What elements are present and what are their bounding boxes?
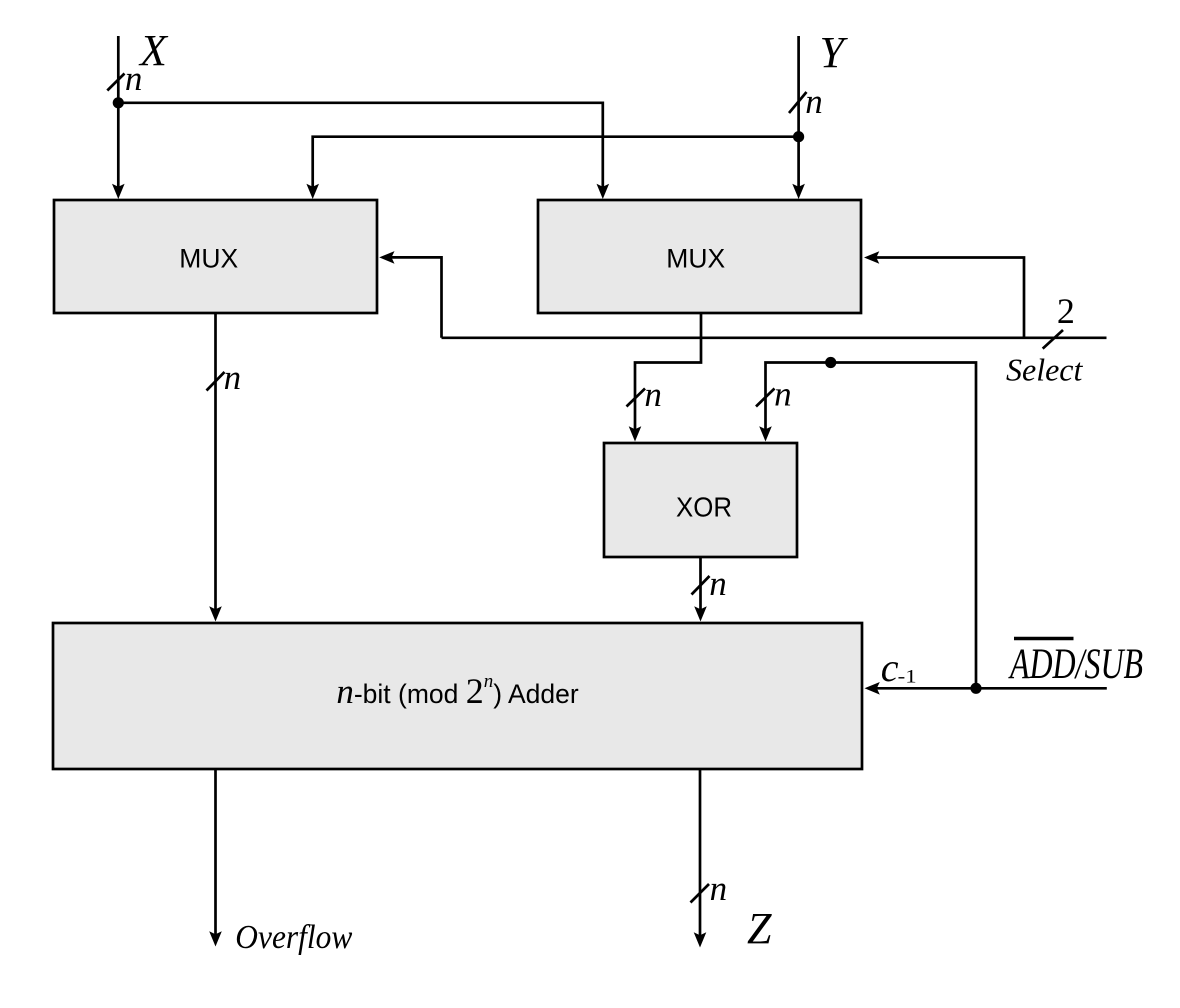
bus slash Y — [789, 92, 807, 113]
bus slash XOR right input — [756, 389, 775, 407]
wire select to right MUX — [871, 258, 1024, 338]
arrowhead c-1 into adder — [865, 682, 880, 695]
arrowhead X branch into right MUX — [597, 184, 610, 199]
junction dot ADD/SUB bottom — [970, 683, 981, 694]
svg-text:n: n — [710, 869, 728, 908]
svg-text:ADD/SUB: ADD/SUB — [1008, 641, 1143, 688]
overline on ADD — [1014, 637, 1074, 641]
arrowhead Z — [694, 932, 707, 947]
arrowhead Y branch into left MUX — [306, 184, 319, 199]
svg-text:n: n — [644, 375, 662, 414]
svg-text:c: c — [881, 645, 899, 690]
wire Select horizontal net — [442, 336, 1107, 339]
bus slash Select 2 — [1043, 330, 1063, 349]
svg-text:n: n — [709, 564, 727, 603]
wire Y branch to left MUX — [313, 137, 799, 191]
wire right MUX output to XOR — [635, 313, 701, 434]
svg-text:n: n — [125, 59, 142, 98]
arrowhead left MUX out into adder — [209, 606, 222, 621]
arrowhead right MUX out into XOR — [629, 426, 642, 441]
arrowhead X into left MUX — [112, 184, 125, 199]
wire XOR output to adder — [699, 557, 702, 614]
xor U3 box — [604, 443, 797, 557]
bus slash left MUX out — [207, 372, 225, 391]
arrowhead Y into right MUX — [792, 184, 805, 199]
bus slash Z — [691, 884, 710, 903]
svg-text:n: n — [774, 375, 792, 414]
arrowhead Overflow — [209, 931, 222, 946]
svg-text:Y: Y — [820, 28, 849, 77]
svg-text:2: 2 — [1057, 291, 1075, 331]
wire input Y vertical — [797, 36, 800, 191]
svg-text:MUX: MUX — [666, 244, 725, 274]
wire left MUX output to adder — [214, 314, 217, 615]
wire select to left MUX — [387, 257, 442, 337]
junction dot X — [113, 97, 124, 108]
arrowhead XOR out into adder — [694, 606, 707, 621]
arrowhead select into right MUX — [864, 251, 879, 264]
mux U1 box — [54, 200, 377, 313]
wire carry-in c-1 — [872, 687, 976, 690]
bus slash right MUX out — [627, 389, 646, 407]
junction dot ADD/SUB top — [825, 357, 836, 368]
wire adder Overflow output — [214, 769, 217, 939]
bus slash X — [107, 74, 124, 91]
svg-text:Z: Z — [747, 904, 772, 953]
wire adder Z output — [699, 769, 702, 940]
svg-text:n: n — [224, 358, 242, 397]
svg-text:Overflow: Overflow — [235, 919, 352, 956]
svg-text:Select: Select — [1006, 352, 1084, 388]
adder U4 box — [53, 623, 862, 769]
mux U2 box — [538, 200, 861, 313]
bus slash XOR out — [692, 576, 710, 595]
svg-text:MUX: MUX — [179, 244, 238, 274]
wire ADD/SUB to XOR right input — [766, 363, 977, 689]
arrowhead ADD/SUB into XOR — [759, 426, 772, 441]
arrowhead select into left MUX — [379, 251, 394, 264]
wire X branch to right MUX — [118, 103, 603, 191]
svg-text:X: X — [138, 26, 169, 75]
svg-text:n: n — [805, 82, 823, 121]
wire input X vertical — [117, 36, 120, 191]
wire ADD/SUB input from right — [976, 687, 1107, 690]
junction dot Y — [793, 131, 804, 142]
svg-text:-1: -1 — [898, 667, 917, 688]
svg-text:XOR: XOR — [676, 492, 732, 523]
